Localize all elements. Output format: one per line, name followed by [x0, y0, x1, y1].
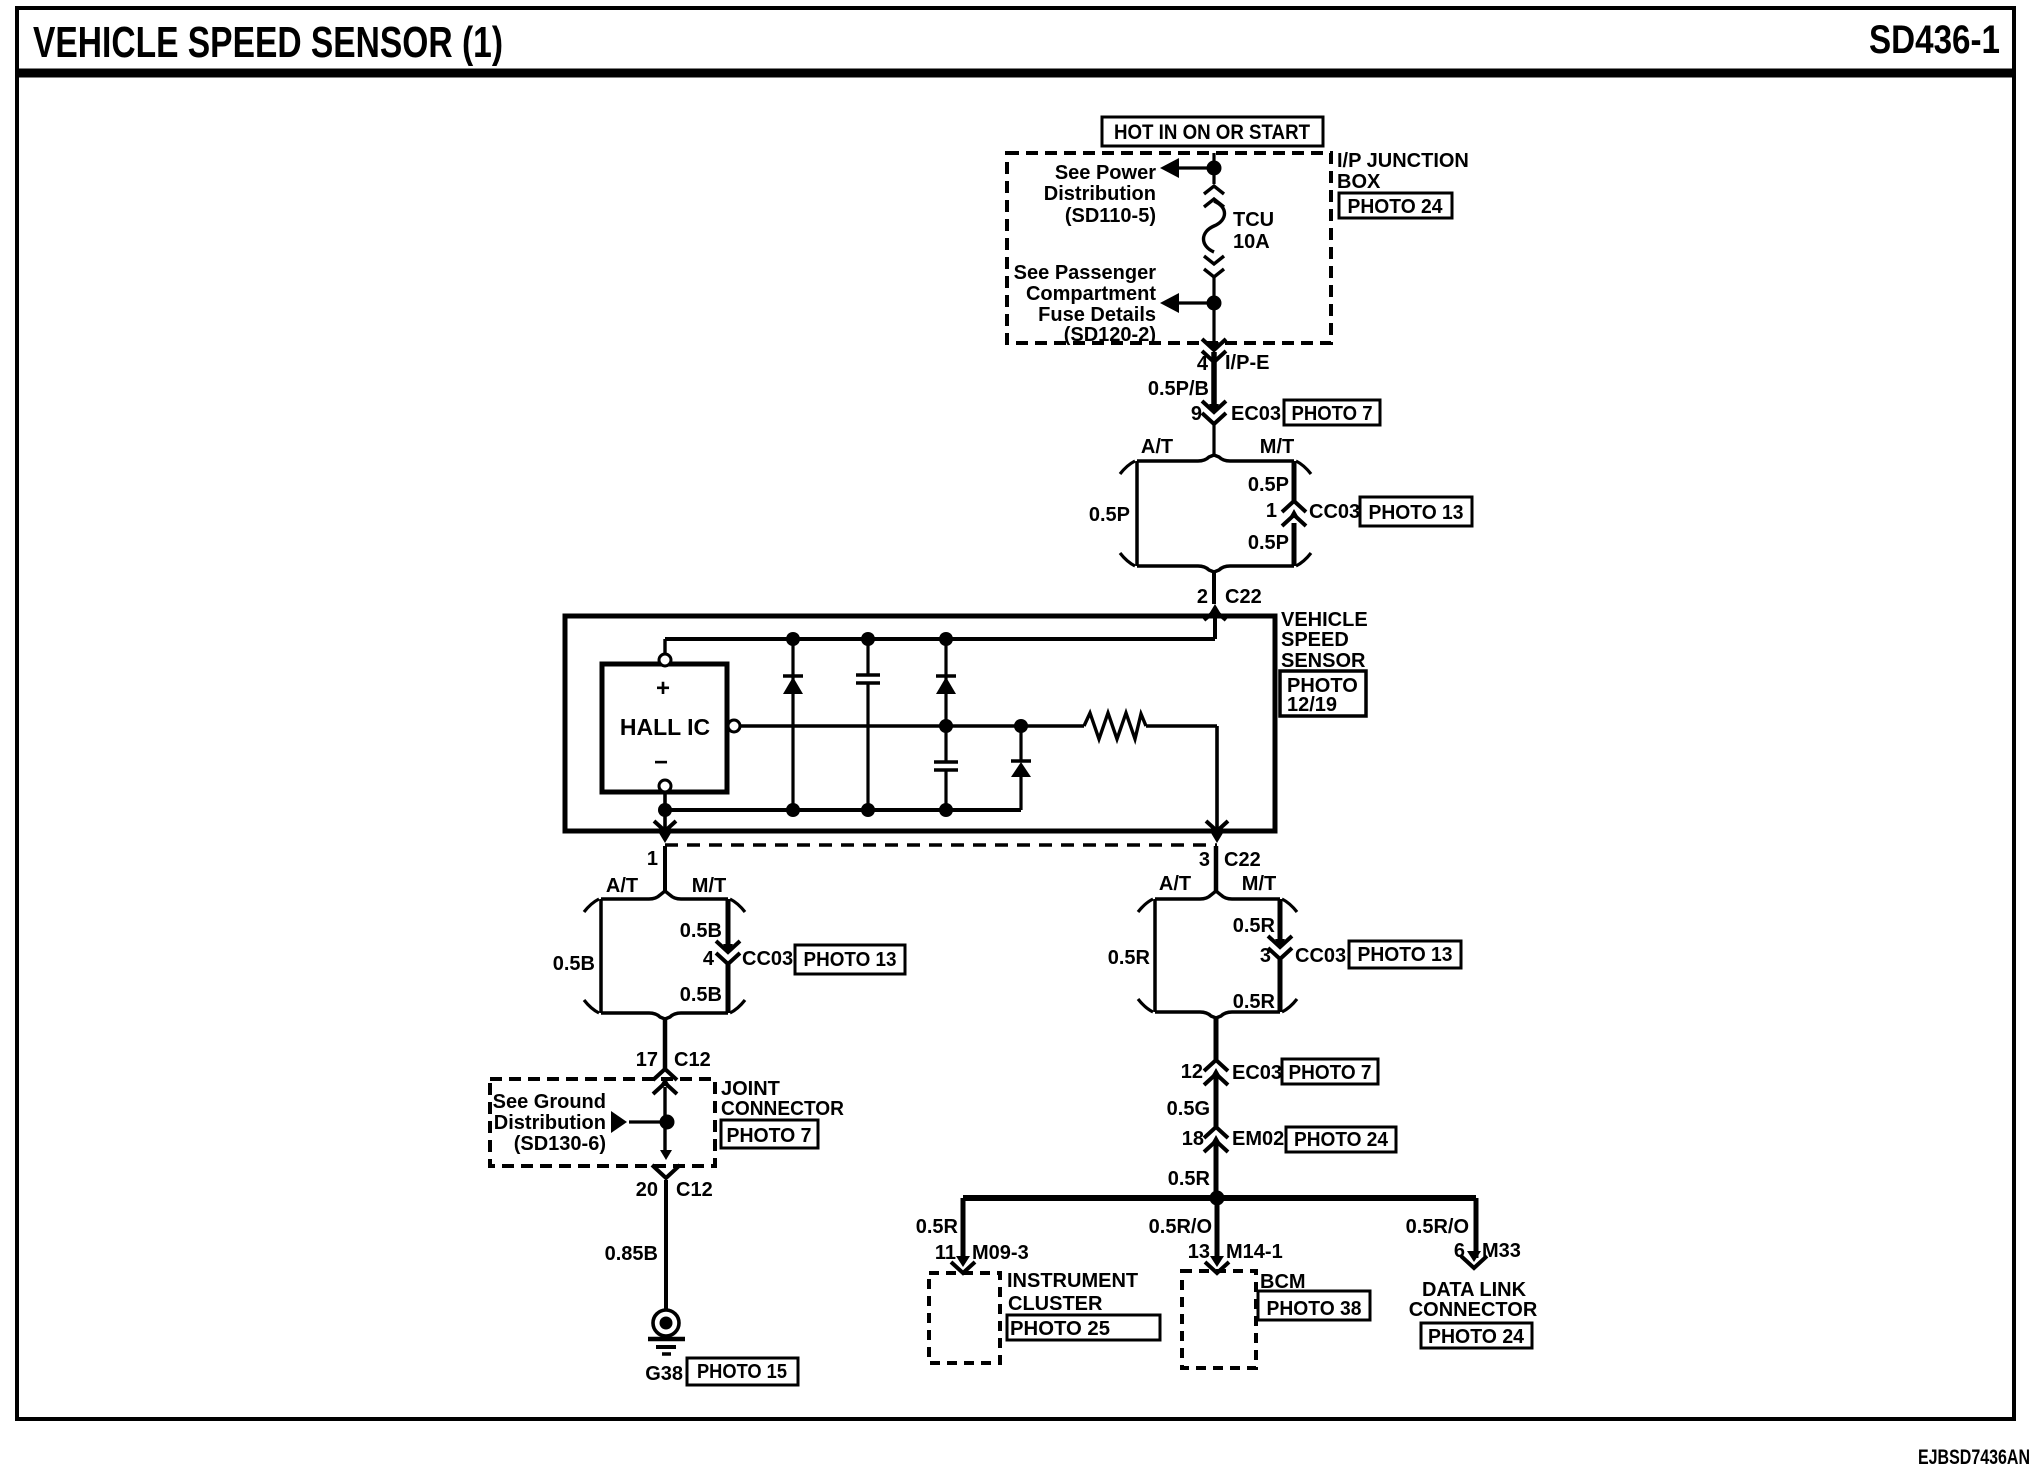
svg-text:HALL IC: HALL IC [620, 714, 710, 740]
node: junction dot to power distribution [1207, 161, 1222, 176]
photo ref box PHOTO 13 (CC03 block3) [1349, 941, 1461, 968]
svg-text:TCU: TCU [1233, 209, 1274, 231]
title separator line [17, 69, 2015, 78]
brace marks at split corners [1120, 461, 1135, 474]
wire: signal bus from hall IC output [740, 724, 1084, 727]
svg-text:Distribution: Distribution [1044, 183, 1156, 205]
node: junction dot (ground distribution tap) [660, 1115, 675, 1130]
joint connector box (dashed) [490, 1079, 715, 1166]
svg-text:M09-3: M09-3 [972, 1242, 1029, 1264]
svg-text:M14-1: M14-1 [1226, 1241, 1283, 1263]
wire: sensor pin1 to A/T-M/T split [663, 846, 667, 891]
svg-text:0.5P: 0.5P [1248, 532, 1289, 554]
capacitor C1 [866, 639, 869, 675]
wire merge (block 2) [601, 1013, 665, 1019]
svg-text:0.5R/O: 0.5R/O [1149, 1216, 1212, 1238]
wire merge of A/T and M/T [1137, 566, 1214, 572]
svg-text:M33: M33 [1482, 1240, 1521, 1262]
svg-text:C22: C22 [1225, 586, 1262, 608]
photo ref box PHOTO 13 (CC03 block2) [795, 945, 905, 974]
svg-text:M/T: M/T [1242, 873, 1276, 895]
connector pin 6 M33 [1467, 1251, 1481, 1262]
vehicle speed sensor box [565, 616, 1275, 831]
wire M/T branch 0.5P lower [1292, 523, 1297, 566]
diode D1 (left clamp) [791, 639, 794, 810]
hall IC output terminal [728, 720, 740, 732]
svg-text:1: 1 [1266, 500, 1277, 522]
svg-text:CONNECTOR: CONNECTOR [1409, 1299, 1538, 1321]
wire: resistor to output corner [1146, 724, 1217, 727]
svg-text:0.5R: 0.5R [1108, 947, 1151, 969]
svg-text:PHOTO 7: PHOTO 7 [1292, 403, 1373, 425]
svg-text:0.5R: 0.5R [916, 1216, 959, 1238]
photo ref box PHOTO 12/19 (sensor) [1280, 671, 1366, 716]
svg-text:A/T: A/T [1141, 436, 1173, 458]
wire merge (block 3) [1155, 1012, 1216, 1018]
svg-text:Fuse Details: Fuse Details [1038, 304, 1156, 326]
svg-text:PHOTO 15: PHOTO 15 [697, 1361, 787, 1383]
svg-text:See Ground: See Ground [493, 1091, 606, 1113]
wire: merge to 17 C12 [663, 1019, 668, 1069]
wire: merge to 12 EC03 [1214, 1018, 1219, 1060]
svg-text:10A: 10A [1233, 231, 1270, 253]
svg-text:CC03: CC03 [742, 948, 793, 970]
svg-text:SPEED: SPEED [1281, 629, 1349, 651]
svg-text:VEHICLE SPEED SENSOR (1): VEHICLE SPEED SENSOR (1) [33, 18, 503, 67]
svg-text:C22: C22 [1224, 849, 1261, 871]
photo ref box PHOTO 38 (BCM) [1258, 1291, 1370, 1320]
svg-text:6: 6 [1454, 1240, 1465, 1262]
wire + arrow: See Passenger Compartment Fuse Details [1178, 301, 1211, 304]
wire 0.5R to distribution node [1214, 1144, 1219, 1198]
wire A/T branch 0.5R [1153, 899, 1157, 1012]
connector pin 12 EC03 [1204, 1060, 1228, 1071]
connector pin 18 EM02 [1204, 1127, 1228, 1138]
svg-text:12: 12 [1181, 1061, 1203, 1083]
hall IC top terminal [659, 654, 671, 666]
ground G38 [653, 1310, 679, 1336]
node: distribution junction dot [1210, 1191, 1225, 1206]
photo ref box PHOTO 15 (G38) [687, 1358, 798, 1385]
svg-text:See Passenger: See Passenger [1014, 262, 1157, 284]
svg-text:(SD120-2): (SD120-2) [1064, 324, 1156, 346]
wire A/T branch 0.5B [599, 899, 603, 1013]
resistor R1 [1084, 713, 1146, 739]
svg-text:0.5P: 0.5P [1248, 474, 1289, 496]
svg-text:3: 3 [1260, 945, 1271, 967]
wire split to A/T and M/T branches [1137, 455, 1214, 461]
wire: distribution bus [963, 1195, 1476, 1201]
instrument cluster box (dashed) [929, 1273, 1000, 1363]
diode D2 with capacitor C2 column [944, 639, 947, 762]
svg-text:PHOTO 38: PHOTO 38 [1267, 1298, 1362, 1320]
svg-text:M/T: M/T [1260, 436, 1294, 458]
svg-text:PHOTO 25: PHOTO 25 [1010, 1318, 1110, 1340]
photo ref box PHOTO 24 (EM02) [1286, 1127, 1396, 1152]
wire split (block 2) [601, 891, 665, 899]
svg-text:BOX: BOX [1337, 171, 1381, 193]
svg-text:PHOTO 7: PHOTO 7 [727, 1125, 812, 1147]
C22 connector dashed line [665, 843, 1217, 846]
svg-text:A/T: A/T [1159, 873, 1191, 895]
connector pin 4 I/P-E [1202, 339, 1226, 350]
photo ref box PHOTO 24 (data link connector) [1421, 1323, 1532, 1348]
wire M/T branch 0.5B lower [726, 964, 731, 1013]
svg-text:CLUSTER: CLUSTER [1008, 1293, 1103, 1315]
svg-text:EJBSD7436AN: EJBSD7436AN [1918, 1446, 2030, 1469]
svg-text:See Power: See Power [1055, 162, 1156, 184]
svg-text:0.5R: 0.5R [1168, 1168, 1211, 1190]
svg-text:I/P JUNCTION: I/P JUNCTION [1337, 150, 1469, 172]
svg-text:0.5R/O: 0.5R/O [1406, 1216, 1469, 1238]
svg-text:PHOTO 13: PHOTO 13 [804, 949, 897, 971]
svg-text:18: 18 [1182, 1128, 1204, 1150]
wire 0.5R/O to data link connector [1474, 1198, 1479, 1258]
BCM box (dashed) [1182, 1271, 1256, 1368]
svg-text:0.5B: 0.5B [553, 953, 595, 975]
wire 0.5G [1214, 1077, 1219, 1127]
svg-text:0.5R: 0.5R [1233, 915, 1276, 937]
wire 0.85B to ground [664, 1180, 668, 1310]
connector pin 1 exit (sensor bottom left) [654, 821, 676, 831]
svg-text:0.5B: 0.5B [680, 984, 722, 1006]
svg-text:(SD130-6): (SD130-6) [514, 1133, 606, 1155]
svg-text:2: 2 [1197, 586, 1208, 608]
connector pin 17 C12 [653, 1069, 677, 1080]
svg-text:M/T: M/T [692, 875, 726, 897]
svg-text:17: 17 [636, 1049, 658, 1071]
svg-text:EM02: EM02 [1232, 1128, 1284, 1150]
svg-text:0.5P/B: 0.5P/B [1148, 378, 1209, 400]
connector 9 EC03 [1202, 401, 1226, 412]
svg-text:EC03: EC03 [1231, 403, 1281, 425]
svg-text:3: 3 [1199, 849, 1210, 871]
photo ref box PHOTO 7 (EC03) [1284, 400, 1380, 425]
connector pin 20 C12 [660, 1150, 672, 1160]
wire: merge to connector 2 C22 [1212, 572, 1216, 604]
svg-text:4: 4 [1197, 353, 1209, 375]
wire A/T branch 0.5P [1135, 461, 1139, 566]
wire inside joint connector [663, 1087, 666, 1150]
svg-text:VEHICLE: VEHICLE [1281, 609, 1368, 631]
wire M/T branch 0.5R lower [1278, 959, 1283, 1012]
hall IC U1 box [602, 664, 727, 792]
wire: from dashed box top to node [1212, 153, 1215, 168]
svg-text:PHOTO 13: PHOTO 13 [1358, 944, 1453, 966]
wire: fuse to I/P-E connector [1212, 303, 1215, 347]
svg-text:PHOTO 7: PHOTO 7 [1289, 1062, 1372, 1084]
wire M/T branch 0.5P upper [1292, 461, 1297, 501]
svg-text:CC03: CC03 [1309, 501, 1360, 523]
svg-text:9: 9 [1191, 403, 1202, 425]
node dots on bottom bus [658, 803, 672, 817]
wire: top bus (Vcc) [663, 639, 666, 654]
svg-text:I/P-E: I/P-E [1225, 352, 1269, 374]
wire + arrow: See Power Distribution [1178, 166, 1211, 169]
svg-text:11: 11 [935, 1242, 956, 1264]
svg-text:SD436-1: SD436-1 [1869, 18, 2000, 62]
node dots on signal bus [939, 719, 953, 733]
connector pin 3 CC03 (block 3) [1268, 936, 1292, 947]
wire M/T branch 0.5R upper [1278, 899, 1283, 944]
svg-text:0.5G: 0.5G [1167, 1098, 1210, 1120]
connector pin 1 CC03 (M/T) [1282, 501, 1306, 512]
photo ref box PHOTO 25 (instrument cluster) [1007, 1315, 1160, 1340]
svg-text:12/19: 12/19 [1287, 694, 1337, 716]
svg-text:A/T: A/T [606, 875, 638, 897]
svg-text:0.5P: 0.5P [1089, 504, 1130, 526]
svg-text:PHOTO 13: PHOTO 13 [1369, 502, 1464, 524]
svg-text:20: 20 [636, 1179, 658, 1201]
svg-text:(SD110-5): (SD110-5) [1065, 205, 1156, 227]
svg-text:G38: G38 [645, 1363, 683, 1385]
wire 0.5R/O to BCM [1215, 1198, 1220, 1261]
node dots on top bus [786, 632, 800, 646]
svg-text:C12: C12 [676, 1179, 713, 1201]
svg-text:INSTRUMENT: INSTRUMENT [1007, 1270, 1138, 1292]
svg-text:0.5R: 0.5R [1233, 991, 1276, 1013]
svg-text:PHOTO 24: PHOTO 24 [1348, 196, 1444, 218]
fuse TCU 10A [1212, 168, 1215, 184]
connector pin 3 C22 exit (sensor bottom right) [1206, 821, 1228, 831]
svg-text:CC03: CC03 [1295, 945, 1346, 967]
svg-text:C12: C12 [674, 1049, 711, 1071]
connector pin 13 M14-1 [1210, 1256, 1224, 1267]
svg-text:0.5B: 0.5B [680, 920, 722, 942]
label: HOT IN ON OR START box [1102, 117, 1323, 146]
svg-text:JOINT: JOINT [721, 1078, 780, 1100]
wire: bottom bus (ground side) [663, 792, 667, 831]
svg-text:4: 4 [703, 948, 715, 970]
node: junction dot to fuse details [1207, 296, 1222, 311]
svg-text:EC03: EC03 [1232, 1062, 1282, 1084]
svg-text:CONNECTOR: CONNECTOR [721, 1098, 845, 1120]
photo ref box PHOTO 24 (I/P junction box) [1339, 193, 1452, 218]
svg-text:HOT IN ON OR START: HOT IN ON OR START [1114, 121, 1310, 144]
wire M/T branch 0.5B upper [726, 899, 731, 949]
svg-text:13: 13 [1188, 1241, 1210, 1263]
wire: sensor pin3 to A/T-M/T split [1214, 846, 1219, 891]
svg-text:1: 1 [647, 848, 658, 870]
wire split (block 3) [1155, 891, 1216, 899]
svg-text:0.85B: 0.85B [605, 1243, 658, 1265]
wire: EC03 to A/T-M/T split [1212, 424, 1215, 455]
photo ref box PHOTO 7 (joint connector) [721, 1120, 818, 1148]
svg-text:DATA LINK: DATA LINK [1422, 1279, 1527, 1301]
connector pin 11 M09-3 [956, 1256, 970, 1267]
wire 0.5P/B [1211, 352, 1217, 406]
svg-text:−: − [654, 749, 668, 776]
connector pin 4 CC03 (block 2) [716, 941, 740, 952]
photo ref box PHOTO 7 (EC03 right chain) [1282, 1059, 1378, 1084]
svg-text:+: + [656, 675, 670, 702]
svg-text:PHOTO 24: PHOTO 24 [1294, 1129, 1389, 1151]
photo ref box PHOTO 13 (CC03 block1) [1360, 497, 1472, 526]
svg-text:PHOTO 24: PHOTO 24 [1428, 1326, 1525, 1348]
svg-text:SENSOR: SENSOR [1281, 650, 1366, 672]
wire + arrow: See Ground Distribution [629, 1120, 660, 1123]
wire 0.5R to instrument cluster [961, 1198, 966, 1261]
svg-text:Compartment: Compartment [1026, 283, 1156, 305]
hall IC bottom terminal [659, 780, 671, 792]
diode D3 (output clamp) [1019, 726, 1022, 761]
I/P junction box (dashed) [1007, 153, 1331, 343]
svg-text:Distribution: Distribution [494, 1112, 606, 1134]
